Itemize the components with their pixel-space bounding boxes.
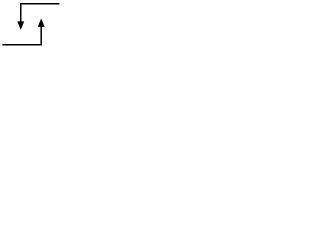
wire top horizontal into down arrow — [21, 4, 60, 22]
arrowhead up — [38, 18, 45, 27]
arrowhead down — [17, 21, 24, 30]
wire bottom horizontal into up arrow — [2, 26, 41, 44]
